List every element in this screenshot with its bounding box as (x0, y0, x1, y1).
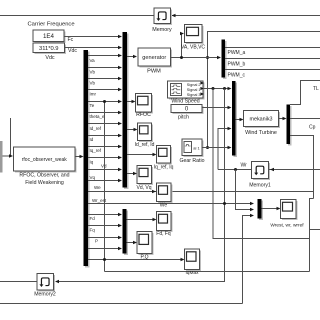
svg-text:PWM: PWM (147, 69, 161, 75)
junction on gear ratio line (206, 146, 209, 149)
wire branch to right edge y=229.5 (310, 229, 320, 231)
svg-text:Signal 3: Signal 3 (187, 93, 201, 97)
Memory block (156, 10, 173, 26)
arrowhead into Memory (172, 14, 176, 18)
svg-text:Vdc: Vdc (68, 48, 77, 54)
junction wind speed line x=224.5 (223, 87, 226, 90)
wire wr feedback to mux D (218, 129, 230, 170)
wire from right edge into Memory (171, 15, 320, 17)
mux bar B (124, 34, 129, 190)
wire P into mux C2 (88, 237, 121, 239)
svg-text:Wind Turbine: Wind Turbine (245, 130, 277, 136)
svg-text:rfoc_observer_weak: rfoc_observer_weak (22, 157, 68, 163)
scope RFOC (137, 95, 153, 114)
wire vertical x=213 down then right (213, 89, 310, 239)
wire mux F to scope (262, 208, 279, 210)
arrowhead into Memory1 (270, 168, 274, 172)
wire signal from demux A (88, 135, 121, 137)
wire generator output to demux G (171, 57, 221, 59)
svg-text:We: We (160, 203, 168, 209)
mux bar D (234, 83, 238, 158)
scope P Q (139, 233, 154, 255)
wire Cp output (290, 118, 320, 120)
svg-text:Gear Ratio: Gear Ratio (179, 158, 204, 164)
scope Id_ref Id (139, 125, 153, 143)
svg-text:Memory: Memory (152, 27, 172, 33)
wire wr_ref from bottom to mux F (243, 216, 254, 304)
wire signal from demux A (88, 67, 121, 69)
wire Memory1 output left (218, 169, 252, 171)
arrowhead Fc into mux B (118, 35, 122, 39)
wire mux D to Wind Turbine (236, 119, 243, 121)
scope Vd Vq (139, 167, 154, 185)
output port Signal 1 (200, 87, 204, 90)
wire PWM branch via vertical x=207.5 (208, 32, 320, 148)
arrowhead into demux E (283, 117, 287, 121)
svg-text:Vq: Vq (90, 175, 96, 180)
wire long horizontal y=271.5 (105, 271, 310, 273)
svg-text:P: P (95, 239, 98, 244)
svg-text:Wind Speed: Wind Speed (171, 99, 199, 105)
svg-text:Iq_ref, Iq: Iq_ref, Iq (154, 165, 174, 171)
svg-text:Fc: Fc (68, 37, 74, 43)
wire signal from demux A (88, 101, 121, 103)
arrowhead into We scope (152, 190, 156, 194)
junction wind speed line x=213 (212, 87, 215, 90)
mux bar C (124, 211, 128, 256)
svg-text:Va: Va (90, 58, 96, 63)
signal builder Gear Ratio (184, 141, 204, 158)
wire vertical x=309.5 with jog (310, 199, 314, 272)
constant block pitch 0 (173, 106, 204, 114)
svg-text:Wr: Wr (241, 163, 248, 169)
scope We (158, 185, 173, 204)
signal builder Wind Speed (169, 83, 205, 100)
svg-text:Vb: Vb (90, 81, 96, 86)
wire Fc to mux B (64, 36, 121, 38)
output port Signal 3 (200, 92, 204, 95)
svg-text:PWM_a: PWM_a (228, 50, 246, 56)
svg-text:Fd: Fd (90, 216, 96, 221)
scope Wrest wr wrref (282, 201, 298, 220)
wire mux C2 to P Q scope (127, 242, 136, 244)
svg-text:Iq: Iq (90, 160, 94, 165)
svg-text:generator: generator (142, 55, 166, 61)
subsystem Wind Turbine mekanik3 (245, 112, 280, 128)
svg-text:Vd, Vq: Vd, Vq (136, 185, 151, 191)
svg-text:We: We (94, 185, 101, 190)
svg-text:Imr: Imr (90, 92, 97, 97)
wire signal from demux A (88, 157, 121, 159)
svg-text:TL: TL (313, 86, 319, 92)
wire vertical branch x=104.5 (104, 102, 106, 272)
svg-text:Id_ref, Id: Id_ref, Id (135, 142, 155, 148)
wire wr to mux F (236, 170, 254, 210)
svg-text:Fd, Fq: Fd, Fq (156, 231, 171, 237)
arrowhead wr into mux D (228, 127, 232, 131)
subsystem PWM generator (140, 50, 173, 68)
arrowhead into Memory2 (55, 280, 59, 284)
demux G for PWM signals (223, 41, 227, 79)
constant block Fc 1E4 (35, 32, 66, 44)
junction on Imr line (103, 100, 106, 103)
svg-text:P,Q: P,Q (141, 255, 149, 261)
svg-text:Vb: Vb (90, 70, 96, 75)
arrowhead Wr_est into mux F (250, 202, 254, 206)
svg-text:Vdc: Vdc (45, 55, 55, 61)
arrowhead into demux A (80, 155, 84, 159)
svg-text:311*0.9: 311*0.9 (39, 46, 59, 52)
demux bar E (288, 106, 292, 146)
svg-text:IqMax: IqMax (185, 270, 199, 276)
svg-text:Fq: Fq (90, 228, 96, 233)
svg-text:Signal 1: Signal 1 (187, 88, 201, 92)
svg-text:Memory2: Memory2 (34, 292, 56, 298)
wire demux E lower output down (290, 136, 314, 199)
wire signal from demux A (88, 146, 121, 148)
svg-text:Id: Id (90, 137, 94, 142)
scope Iq_ref Iq (158, 147, 172, 165)
wire wind speed to mux D (203, 88, 230, 90)
svg-text:Signal 2: Signal 2 (187, 83, 201, 87)
svg-text:VA, VB,VC: VA, VB,VC (181, 45, 205, 51)
wire pitch to mux D (202, 107, 230, 109)
svg-text:pitch: pitch (178, 115, 189, 121)
arrowhead into VA VB VC scope (180, 32, 184, 36)
wire bottom long line (0, 303, 243, 305)
svg-text:al 1: al 1 (193, 146, 200, 151)
wire signal from demux A (88, 78, 121, 80)
wire signal from demux A (88, 180, 121, 182)
constant block Vdc 311*0.9 (35, 45, 67, 55)
svg-text:Memory1: Memory1 (249, 183, 271, 189)
junction Wr_est branch x=224.5 (223, 202, 226, 205)
scope VA VB VC (186, 26, 204, 44)
wire signal from demux A (88, 123, 121, 125)
svg-text:Iq_ref: Iq_ref (90, 148, 102, 153)
svg-text:theta_e: theta_e (90, 114, 106, 119)
svg-text:PWM_b: PWM_b (228, 62, 246, 68)
svg-text:RFOC, Observer, and: RFOC, Observer, and (19, 173, 69, 179)
svg-text:mekanik3: mekanik3 (249, 116, 272, 122)
wire Fq (88, 225, 121, 227)
wire Memory2 output to left edge (0, 281, 37, 283)
wire gear ratio to mux D (202, 147, 230, 149)
arrowhead into IqMax scope (181, 258, 185, 262)
output port Signal 2 (200, 81, 204, 84)
arrowhead into rfoc (9, 154, 13, 158)
wire vertical x=224.5 down into Memory2 (56, 89, 225, 282)
junction on P line (103, 258, 106, 261)
arrowhead wr_ref into mux F (250, 214, 254, 218)
wire Wr_est to mux F (88, 203, 253, 205)
wire P to IqMax scope (88, 259, 183, 261)
demux A tall bar (85, 52, 90, 268)
wire from left edge into rfoc (3, 155, 12, 157)
wire to Iq_ref Iq scope (127, 154, 155, 156)
wire signal from demux A (88, 169, 121, 171)
wire PWM_c (225, 69, 320, 71)
arrowhead into demux G (217, 56, 221, 60)
svg-text:Wrest, wr, wrref: Wrest, wr, wrref (270, 223, 304, 229)
wire Vdc to mux B (65, 47, 121, 49)
wire Memory output to left edge (0, 15, 154, 17)
svg-text:Carrier Frequence: Carrier Frequence (28, 22, 75, 28)
wire mux B to RFOC scope (127, 101, 134, 103)
wire mux B to generator (127, 56, 136, 58)
wire signal from demux A (88, 112, 121, 114)
wire to Id_ref Id scope (127, 129, 136, 131)
svg-text:RFOC: RFOC (136, 112, 151, 118)
mux bar F (259, 201, 263, 221)
wire signal from demux A (88, 89, 121, 91)
wire vertical into rfoc line (10, 118, 12, 156)
wire Wind Turbine to demux E (279, 118, 286, 120)
arrowhead Vdc into mux B (118, 46, 122, 50)
svg-text:PWM_c: PWM_c (228, 73, 246, 79)
wire to Vd Vq scope (127, 173, 136, 175)
svg-text:1E4: 1E4 (43, 33, 55, 40)
junction on Memory1 output (234, 168, 237, 171)
scope IqMax (186, 251, 201, 272)
scope Fd Fq (158, 213, 173, 232)
wire from right edge into Memory1 (269, 169, 320, 171)
wire We long line (88, 191, 314, 193)
cropped port block at left edge (0, 141, 3, 173)
wire PWM_a (225, 47, 320, 49)
wire mux C1 to Fd Fq scope (127, 219, 156, 221)
wire rfoc output to demux A (75, 156, 82, 158)
junction on generator output line (206, 56, 209, 59)
arrowhead into generator (133, 55, 137, 59)
Memory2 block (39, 275, 56, 292)
junction on generator line for scope branch (180, 56, 183, 59)
Memory1 block (253, 163, 270, 180)
svg-text:Field Weakening: Field Weakening (25, 180, 64, 186)
svg-text:Te: Te (90, 103, 95, 108)
arrowhead into Wind Turbine (240, 118, 244, 122)
arrowhead into Wrest scope (277, 207, 281, 211)
wire PWM_b (225, 58, 320, 60)
wire TL output (290, 81, 320, 105)
wire Fd (88, 214, 121, 216)
svg-text:Cp: Cp (309, 125, 316, 131)
svg-text:Id_ref: Id_ref (90, 126, 102, 131)
subsystem rfoc_observer_weak (15, 149, 77, 173)
wire branch up to VA VB VC scope (182, 34, 184, 58)
wire signal from demux A (88, 55, 121, 57)
arrowhead wr into mux F (250, 208, 254, 212)
wire Q into mux C2 (88, 248, 121, 250)
